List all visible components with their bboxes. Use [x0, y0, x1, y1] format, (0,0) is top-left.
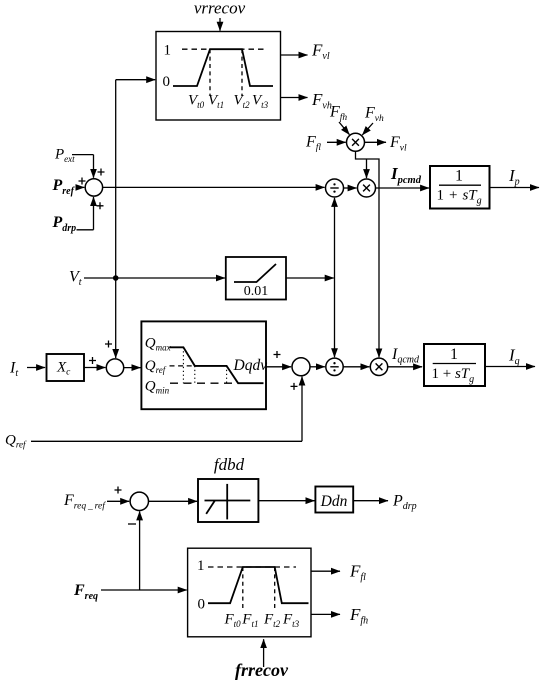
block transfer function lower 1/(1+sTg)	[424, 344, 485, 386]
summing junction frequency	[130, 492, 148, 510]
wire Ipcmd to upper transfer block	[376, 187, 430, 189]
wire vrrecov down into voltage trapezoid block	[219, 18, 221, 31]
node Vt junction dot	[113, 275, 119, 281]
wire limiter output into mid vertical	[286, 277, 334, 279]
plus sign Freq_ref input	[115, 487, 122, 494]
plus sign Qref input	[291, 383, 298, 390]
svg-text:0.01: 0.01	[244, 284, 269, 299]
svg-text:1: 1	[455, 167, 463, 184]
svg-text:Ddn: Ddn	[320, 493, 348, 510]
minus sign Freq input	[128, 523, 136, 525]
wire Ffl output of frequency block	[311, 570, 340, 572]
wire Fvl output of top block	[281, 54, 308, 56]
wire Fvl output of F multiplier	[365, 141, 387, 143]
multiplier lower	[370, 358, 387, 375]
svg-text:Pdrp: Pdrp	[392, 493, 417, 513]
svg-text:Freq _ ref: Freq _ ref	[63, 492, 106, 512]
svg-text:1: 1	[197, 558, 205, 574]
voltage trapezoid dashed verticals Vt1 Vt2	[210, 49, 242, 96]
wire Fvh output of top block	[281, 97, 308, 99]
block limiter 0.01	[226, 257, 286, 300]
wire Pdrp output of Ddn	[353, 500, 388, 502]
block Ddn	[315, 487, 353, 513]
summing junction P (Pext+Pref+Pdrp)	[85, 179, 102, 196]
wire Pref into P summing junction	[76, 186, 84, 188]
multiplier upper	[358, 179, 376, 197]
svg-text:1: 1	[450, 346, 458, 363]
wire Ffh into F multiplier	[339, 122, 349, 135]
svg-text:Iqcmd: Iqcmd	[391, 346, 420, 366]
svg-text:Ffl: Ffl	[349, 562, 366, 584]
svg-text:Ffl: Ffl	[305, 134, 321, 154]
wire mid vertical down into lower divider	[334, 278, 336, 357]
wire Ffh output of frequency block	[311, 613, 340, 615]
wire Xc output into Q summing junction	[84, 367, 105, 369]
block Xc	[47, 354, 85, 381]
wire Pext into P summing junction	[72, 155, 94, 178]
wire Qref up into Qref summing junction	[31, 377, 302, 442]
svg-text:Ipcmd: Ipcmd	[390, 164, 422, 186]
svg-text:Fvl: Fvl	[389, 134, 407, 154]
wire upper divider to upper multiplier	[344, 187, 357, 189]
summing junction Qref	[292, 358, 310, 376]
svg-text:Fvh: Fvh	[311, 90, 332, 112]
Dqdv curve	[169, 347, 263, 383]
plus sign Dqdv output	[274, 351, 281, 358]
svg-text:0: 0	[163, 74, 171, 90]
voltage trapezoid curve	[173, 49, 273, 86]
block Dqdv	[141, 321, 266, 409]
svg-text:It: It	[9, 360, 18, 380]
svg-text:frrecov: frrecov	[235, 660, 289, 680]
svg-text:Freq: Freq	[73, 582, 98, 602]
svg-text:0: 0	[198, 597, 206, 613]
summing junction Q (Xc*It + Vt)	[106, 359, 123, 376]
wire Freq into frequency trapezoid block	[101, 589, 187, 591]
block voltage trapezoid (vrrecov)	[156, 32, 281, 121]
svg-text:Qref: Qref	[5, 433, 27, 450]
wire frequency sum output into fdbd block	[149, 500, 198, 502]
wire Iqcmd to lower transfer block	[388, 366, 422, 368]
limiter curve	[234, 264, 276, 282]
block transfer function upper 1/(1+sTg)	[430, 166, 490, 209]
wire Freq branch up into frequency summing junction	[139, 511, 141, 590]
wire F multiplier down / across to lower multiplier	[356, 151, 380, 357]
frequency trapezoid 1-level dashed line	[208, 566, 296, 568]
wire Freq_ref into frequency summing junction	[107, 500, 129, 502]
wire Vt vertical bus (left) from top-block elbow down to Q summing junction	[115, 80, 117, 358]
svg-text:fdbd: fdbd	[214, 455, 245, 474]
plus sign Xc output	[89, 357, 96, 364]
svg-text:Ffh: Ffh	[329, 104, 347, 124]
wire It into Xc block	[27, 367, 45, 369]
Dqdv Qref dashed level	[170, 365, 195, 367]
svg-text:Pref: Pref	[52, 177, 76, 197]
svg-text:Vt: Vt	[69, 269, 82, 289]
wire lower divider to lower multiplier	[343, 366, 369, 368]
wire Vt row into limiter block	[84, 277, 225, 279]
wire mid vertical up into upper divider	[334, 198, 336, 278]
svg-text:Dqdv: Dqdv	[233, 357, 268, 374]
wire Dqdv output into Qref summing junction	[266, 366, 291, 368]
plus sign Vt input	[105, 341, 112, 348]
wire Iq output	[484, 366, 535, 368]
plus sign Pext input	[98, 169, 105, 176]
Dqdv dotted verticals	[183, 347, 226, 383]
svg-text:Pdrp: Pdrp	[52, 214, 77, 234]
wire frrecov up into frequency block	[263, 639, 265, 667]
block frequency trapezoid	[188, 548, 311, 637]
svg-text:1: 1	[164, 42, 172, 58]
frequency trapezoid dashed verticals	[243, 567, 275, 611]
svg-text:Fvh: Fvh	[364, 105, 384, 125]
plus sign Pref input	[79, 178, 86, 185]
wire branch into upper multiplier	[366, 159, 368, 178]
divider lower	[326, 358, 343, 375]
wire fdbd output into Ddn block	[258, 500, 314, 502]
block fdbd deadband	[198, 479, 258, 522]
wire Ip output	[490, 187, 539, 189]
multiplier F (Ffl x Ffh x Fvh)	[347, 133, 365, 151]
wire Fvh into F multiplier	[362, 123, 373, 135]
svg-text:Ffh: Ffh	[349, 605, 368, 627]
wire P sum output to divider	[103, 186, 325, 188]
wire Qref sum output into lower divider	[310, 366, 325, 368]
divider upper	[326, 179, 344, 197]
plus sign Pdrp input	[97, 202, 104, 209]
svg-text:vrrecov: vrrecov	[194, 0, 246, 18]
voltage trapezoid 1-level dashed line	[182, 48, 265, 50]
wire Ffl into F multiplier	[327, 141, 346, 143]
Dqdv Qmin dashed level	[170, 382, 234, 384]
svg-text:Ip: Ip	[508, 166, 520, 188]
svg-text:Pext: Pext	[54, 147, 75, 165]
wire into top voltage block	[116, 79, 156, 81]
svg-text:Fvl: Fvl	[311, 41, 330, 63]
svg-text:Iq: Iq	[508, 346, 520, 368]
wire Q sum output into Dqdv block	[124, 367, 141, 369]
frequency trapezoid curve	[208, 567, 309, 603]
wire Pdrp into P summing junction	[77, 197, 94, 230]
